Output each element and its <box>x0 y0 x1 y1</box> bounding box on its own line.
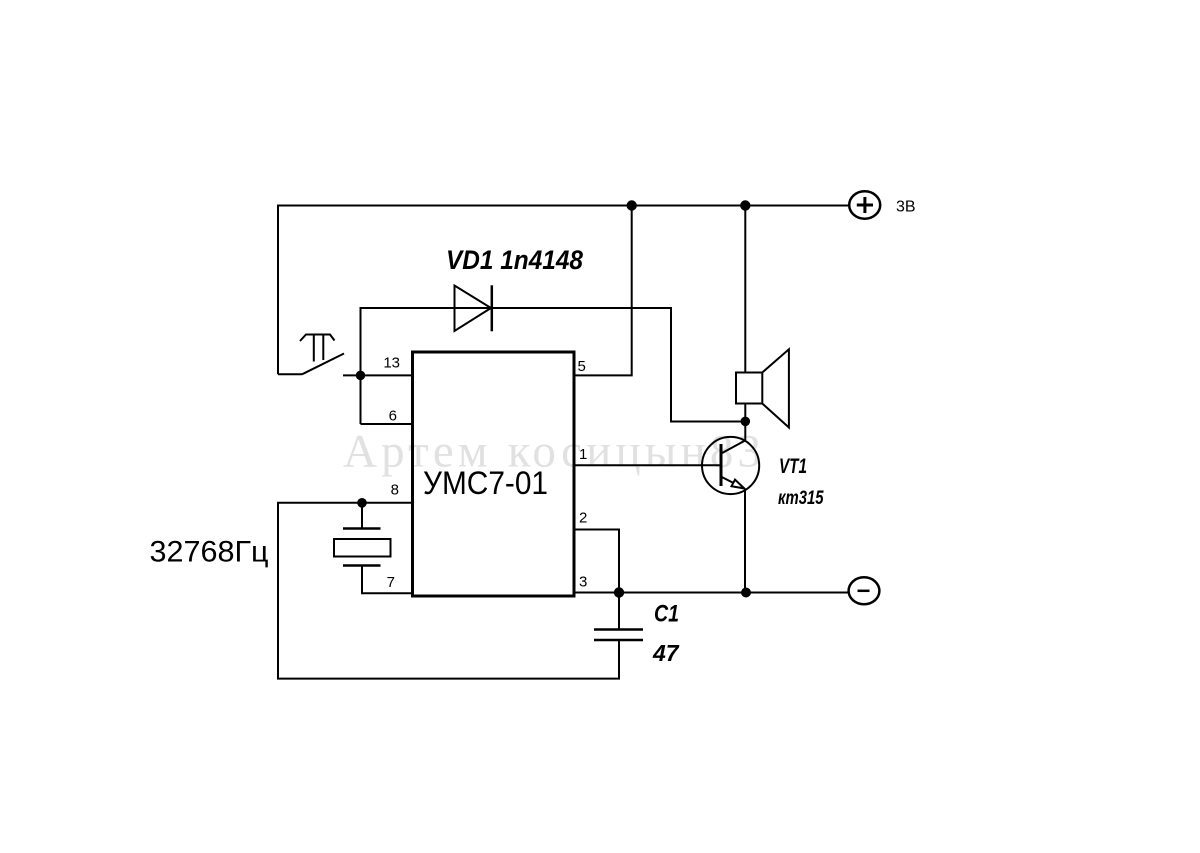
svg-text:13: 13 <box>383 354 400 371</box>
svg-text:кт315: кт315 <box>778 488 824 509</box>
svg-text:VT1: VT1 <box>779 455 807 478</box>
svg-text:C1: C1 <box>654 601 679 628</box>
svg-text:3: 3 <box>579 573 587 590</box>
svg-text:3В: 3В <box>896 199 916 216</box>
svg-text:VD1 1n4148: VD1 1n4148 <box>446 245 583 275</box>
svg-text:7: 7 <box>387 574 395 591</box>
svg-text:5: 5 <box>578 358 586 375</box>
svg-text:1: 1 <box>579 446 587 463</box>
svg-text:32768Гц: 32768Гц <box>150 536 269 569</box>
svg-text:47: 47 <box>652 640 680 666</box>
svg-text:8: 8 <box>391 482 399 499</box>
svg-text:6: 6 <box>389 408 397 425</box>
svg-text:УМС7-01: УМС7-01 <box>423 465 548 501</box>
svg-text:2: 2 <box>579 510 587 527</box>
